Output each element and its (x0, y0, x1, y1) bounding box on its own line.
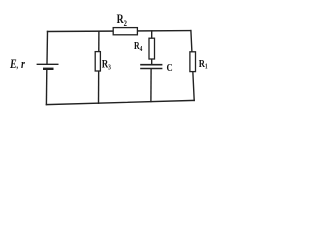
resistor R3 (95, 52, 100, 71)
label R2 (117, 13, 128, 28)
wire left lower (battery bottom lead) (45, 70, 47, 105)
resistor R2 (113, 28, 137, 35)
resistor R1 (190, 52, 196, 72)
wire top (48, 30, 191, 33)
svg-text:R1: R1 (199, 58, 208, 71)
label R4 (134, 40, 143, 53)
wire branch R3 (98, 31, 100, 103)
svg-text:R3: R3 (102, 59, 111, 72)
wire left upper (battery top lead) (46, 32, 49, 64)
wire capacitor bottom lead (150, 69, 152, 101)
wire branch R4 upper (151, 31, 153, 64)
battery E,r (37, 64, 59, 69)
svg-text:R2: R2 (117, 13, 128, 28)
resistor R4 (149, 38, 155, 59)
label C (167, 62, 173, 74)
label R3 (102, 59, 111, 72)
wire right (through R1) (191, 31, 194, 101)
wire bottom (46, 100, 194, 104)
svg-text:C: C (167, 62, 173, 74)
svg-text:R4: R4 (134, 40, 143, 53)
label E, r (9, 58, 25, 71)
svg-text:E, r: E, r (9, 58, 25, 71)
capacitor C plates (140, 65, 162, 69)
label R1 (199, 58, 208, 71)
